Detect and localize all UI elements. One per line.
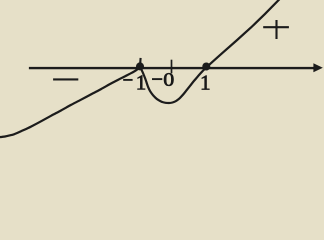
label -0 : minus (152, 78, 162, 80)
wire: curve dip and right branch (141, 0, 279, 103)
axis arrowhead (313, 63, 322, 72)
x-axis (29, 67, 315, 69)
wire: curve left branch (0, 66, 141, 137)
label -0 : digit 0 (164, 73, 173, 86)
plus sign (right interval) : horizontal bar (263, 26, 289, 28)
minus sign (left interval) (53, 78, 78, 80)
label -1 : digit 1 (138, 76, 145, 90)
node at x=1 (202, 63, 210, 71)
tick at 0 (171, 60, 173, 74)
label -1 : minus (123, 79, 132, 81)
label 1 under right node (202, 76, 209, 90)
node at x=-1 (136, 62, 144, 70)
wire: curve spike above node (139, 58, 142, 65)
plus sign : vertical bar (275, 20, 277, 39)
